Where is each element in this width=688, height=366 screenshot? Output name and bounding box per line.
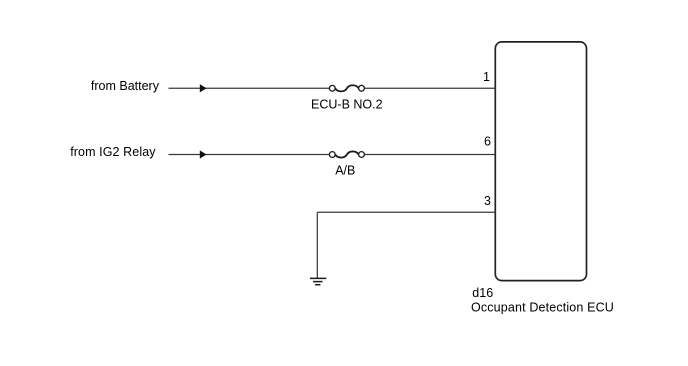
fuse ECU-B NO.2 left terminal circle [329,85,335,91]
svg-text:Occupant Detection ECU: Occupant Detection ECU [471,300,614,314]
ground wire vertical drop [316,212,318,278]
wire from IG2 Relay to pin 6 (left segment) [169,154,330,156]
fuse A/B right terminal circle [359,152,365,158]
svg-text:3: 3 [484,194,491,208]
svg-text:ECU-B NO.2: ECU-B NO.2 [311,97,383,111]
svg-text:1: 1 [483,70,490,84]
wire from Battery to pin 1 (left segment) [169,87,330,89]
ground symbol bar 3 [315,284,320,286]
ground symbol bar 2 [313,281,322,283]
svg-text:from IG2 Relay: from IG2 Relay [70,145,156,159]
fuse ECU-B NO.2 right terminal circle [359,85,365,91]
wire from fuse ECU-B NO.2 to pin 1 (right segment) [364,87,495,89]
ground symbol bar 1 [310,277,326,279]
ground wire horizontal from pin 3 [317,211,495,213]
svg-text:A/B: A/B [335,164,355,178]
arrowhead on IG2 relay wire [200,150,207,158]
fuse A/B element curve [335,151,358,157]
wire from fuse A/B to pin 6 (right segment) [364,154,495,156]
svg-text:6: 6 [484,135,491,149]
svg-text:from Battery: from Battery [91,79,160,93]
Occupant Detection ECU box [495,42,586,281]
fuse ECU-B NO.2 element curve [335,85,358,91]
fuse A/B left terminal circle [329,152,335,158]
svg-text:d16: d16 [472,286,493,300]
arrowhead on battery wire [200,84,207,92]
